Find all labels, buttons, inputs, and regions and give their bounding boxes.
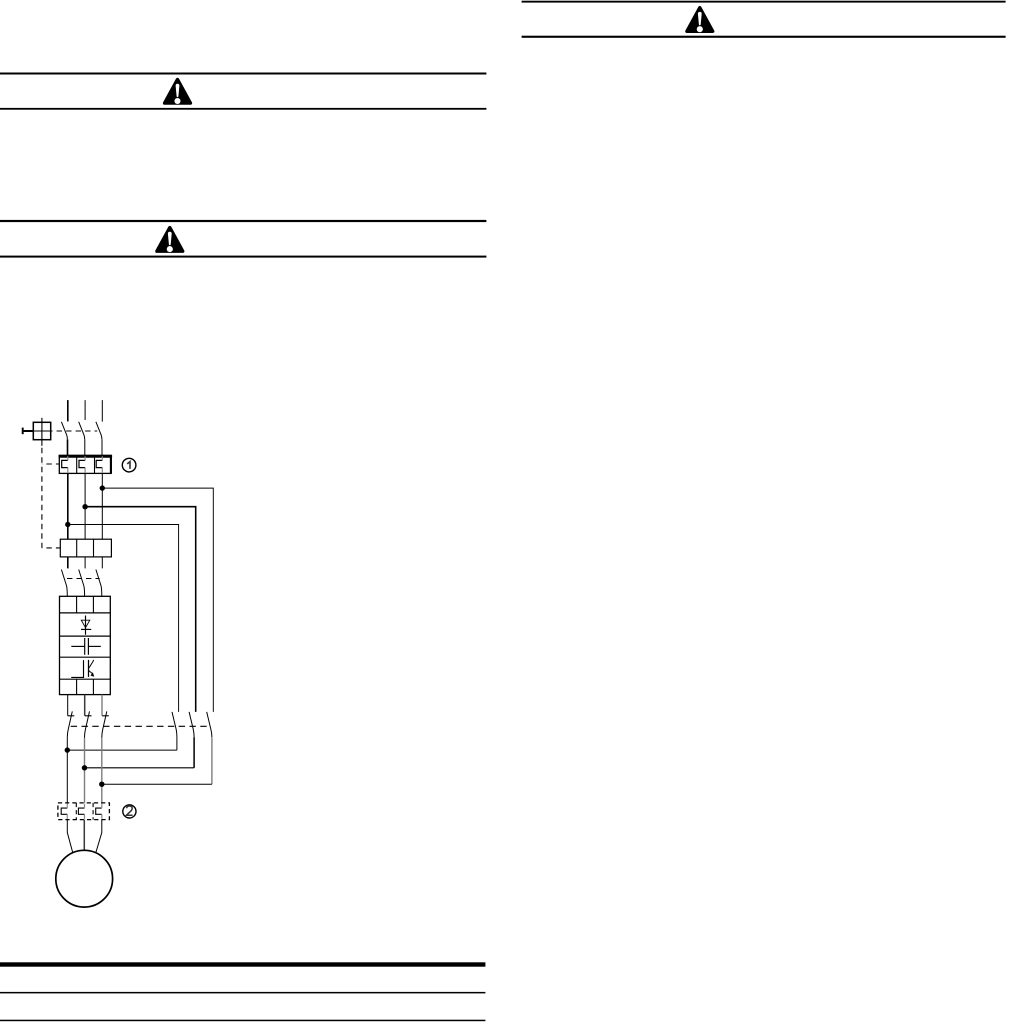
wire L3 breaker to contactor (101, 473, 103, 539)
wire L1 blade to breaker (67, 439, 69, 455)
table heavy top rule (0, 962, 485, 966)
line contactor blade pole 3 (96, 570, 102, 597)
SMC controller block outline (60, 596, 111, 694)
warning triangle icon (right col) (687, 8, 713, 33)
wire L1 incoming (67, 400, 69, 421)
SMC row line 1 (60, 612, 111, 614)
SMC row line 2 (60, 635, 111, 637)
warning triangle icon (left col 2) (157, 228, 183, 253)
wire bypass tap from L1 (68, 525, 179, 712)
transistor gate lead (71, 660, 83, 677)
table row rule 1 (0, 992, 485, 994)
breaker element pole 3 (96, 460, 102, 467)
wire L1 to overload (66, 738, 68, 803)
wire bypass 1 to junction (176, 737, 178, 750)
wire bypass 3 to junction (211, 737, 213, 784)
node junction dot phase 2 lower (82, 765, 87, 770)
overload pole 3 pass-through stubs (101, 804, 103, 819)
wire L2 below SMC (bold) (84, 695, 86, 716)
breaker block thick top edge (59, 455, 113, 458)
SMC row line 4 (60, 678, 111, 680)
overload pole 1 pass-through stubs (66, 804, 68, 819)
line contactor blade pole 1 (61, 570, 67, 597)
wire L2 contactor stub (84, 557, 86, 569)
wire motor lead T2 (bold) (83, 820, 85, 851)
bypass contactor fixed contact foot pole 3 (102, 715, 109, 717)
overload block divider 2 (dashed) (92, 803, 94, 820)
contactor block divider 1 (76, 539, 78, 557)
wire junction phase 3 (102, 783, 212, 785)
attention banner rule (right col bottom) (522, 36, 1006, 38)
linkage dashed branch to contactor block (42, 547, 60, 549)
wire L2 incoming (84, 400, 86, 420)
attention banner rule (left col 1 top) (0, 73, 486, 75)
bypass contactor blade pole 3 (motor side) (102, 711, 107, 738)
transistor collector stroke (89, 660, 94, 669)
bypass contactor blade pole 2 (motor side) (85, 711, 90, 738)
capacitor plate left (84, 638, 86, 655)
transistor emitter stroke (89, 670, 93, 673)
attention banner rule (right col top) (522, 1, 1006, 3)
contactor terminal block outline (60, 539, 111, 557)
wire L1 contactor stub (67, 557, 69, 569)
wire L3 below SMC (101, 695, 103, 716)
contactor block divider 2 (93, 539, 95, 557)
label callout 2 circle (123, 805, 136, 818)
disconnect switch blade pole 3 (96, 422, 102, 440)
overload relay block outline (dashed) (58, 803, 110, 820)
SMC bottom row dividers (77, 679, 94, 694)
attention banner rule (left col 2 top) (0, 220, 486, 222)
bypass contactor blade pole 1 (bypass side) (172, 712, 177, 737)
bypass contactor blade pole 3 (bypass side) (207, 712, 212, 737)
breaker pole 2 pass-through stubs (84, 456, 86, 472)
wire L3 incoming (101, 400, 103, 422)
label callout 1 circle (122, 458, 136, 472)
wire bypass tap from L2 (bold) (85, 507, 196, 712)
bypass contactor fixed contact foot pole 1 (68, 715, 75, 717)
breaker pole 1 pass-through stubs (67, 456, 69, 472)
wire motor lead T3 (96, 820, 102, 853)
overload element pole 1 (61, 808, 67, 814)
wire L2 blade to breaker (84, 439, 86, 455)
bypass contactor blade pole 2 (bypass side) (189, 712, 194, 737)
line contactor linkage dashed line (65, 578, 100, 580)
label callout 2 text (126, 806, 132, 815)
breaker element pole 1 (62, 460, 68, 467)
linkage dashed vertical from operator (41, 446, 43, 548)
overload pole 2 pass-through stubs (84, 804, 86, 819)
bypass contactor linkage dashed line (70, 725, 207, 727)
label callout 1 text (127, 462, 130, 469)
capacitor lead left (71, 645, 84, 647)
attention banner rule (left col 2 bottom) (0, 256, 486, 258)
SMC top row dividers (77, 596, 94, 613)
breaker element pole 2 (79, 460, 85, 467)
wire motor lead T1 (67, 820, 72, 853)
wire L3 blade to breaker (101, 439, 103, 455)
node junction dot phase 2 upper (82, 504, 87, 509)
node junction dot phase 1 upper (65, 522, 70, 527)
motor M1 circle (56, 850, 113, 907)
breaker block cell divider 2 (94, 455, 96, 473)
SCR thyristor symbol lead (85, 616, 87, 635)
breaker block thick right edge (110, 455, 112, 473)
circuit breaker block U1 outline (59, 455, 111, 473)
transistor base bar (88, 660, 90, 677)
overload element pole 2 (78, 808, 84, 814)
breaker pole 3 pass-through stubs (101, 456, 103, 472)
wire L2 to overload (84, 738, 86, 803)
bypass contactor fixed contact foot pole 2 (85, 715, 92, 717)
linkage dashed branch to breaker block (42, 463, 59, 465)
SCR cathode bar (81, 628, 91, 630)
SCR triangle (81, 620, 90, 628)
node junction dot phase 1 lower (65, 747, 70, 752)
operator handle shaft (23, 430, 34, 432)
warning triangle icon (left col 1) (165, 80, 191, 105)
wire L2 breaker to contactor (84, 473, 86, 539)
bypass contactor blade pole 1 (motor side) (67, 711, 72, 738)
table row rule 2 (0, 1020, 485, 1022)
breaker block cell divider 1 (76, 455, 78, 473)
wire junction phase 1 (67, 749, 177, 751)
wire L1 breaker to contactor (67, 473, 69, 539)
overload element pole 3 (96, 808, 102, 814)
disconnect switch blade pole 1 (61, 422, 67, 440)
wire L3 contactor stub (101, 557, 103, 569)
wire junction phase 2 (85, 767, 195, 769)
transistor emitter arrowhead (90, 672, 94, 676)
attention banner rule (left col 1 bottom) (0, 108, 486, 110)
disconnect operator handle box (33, 422, 50, 439)
line contactor blade pole 2 (79, 570, 85, 597)
overload block divider 1 (dashed) (75, 803, 77, 820)
node junction dot phase 3 upper (100, 485, 105, 490)
node junction dot phase 3 lower (99, 782, 104, 787)
wire bypass 2 to junction (bold) (193, 737, 195, 768)
SMC row line 3 (60, 656, 111, 658)
capacitor plate right (87, 638, 89, 655)
operator handle grip (22, 428, 24, 435)
wire L1 below SMC (67, 695, 69, 716)
capacitor lead right (88, 645, 100, 647)
wire bypass tap from L3 (102, 488, 213, 712)
operator box cross horizontal (33, 430, 50, 432)
wire L3 to overload (101, 738, 103, 803)
disconnect switch blade pole 2 (79, 422, 85, 440)
linkage dashed line to disconnect blades (51, 430, 97, 432)
operator box cross vertical (41, 418, 43, 446)
